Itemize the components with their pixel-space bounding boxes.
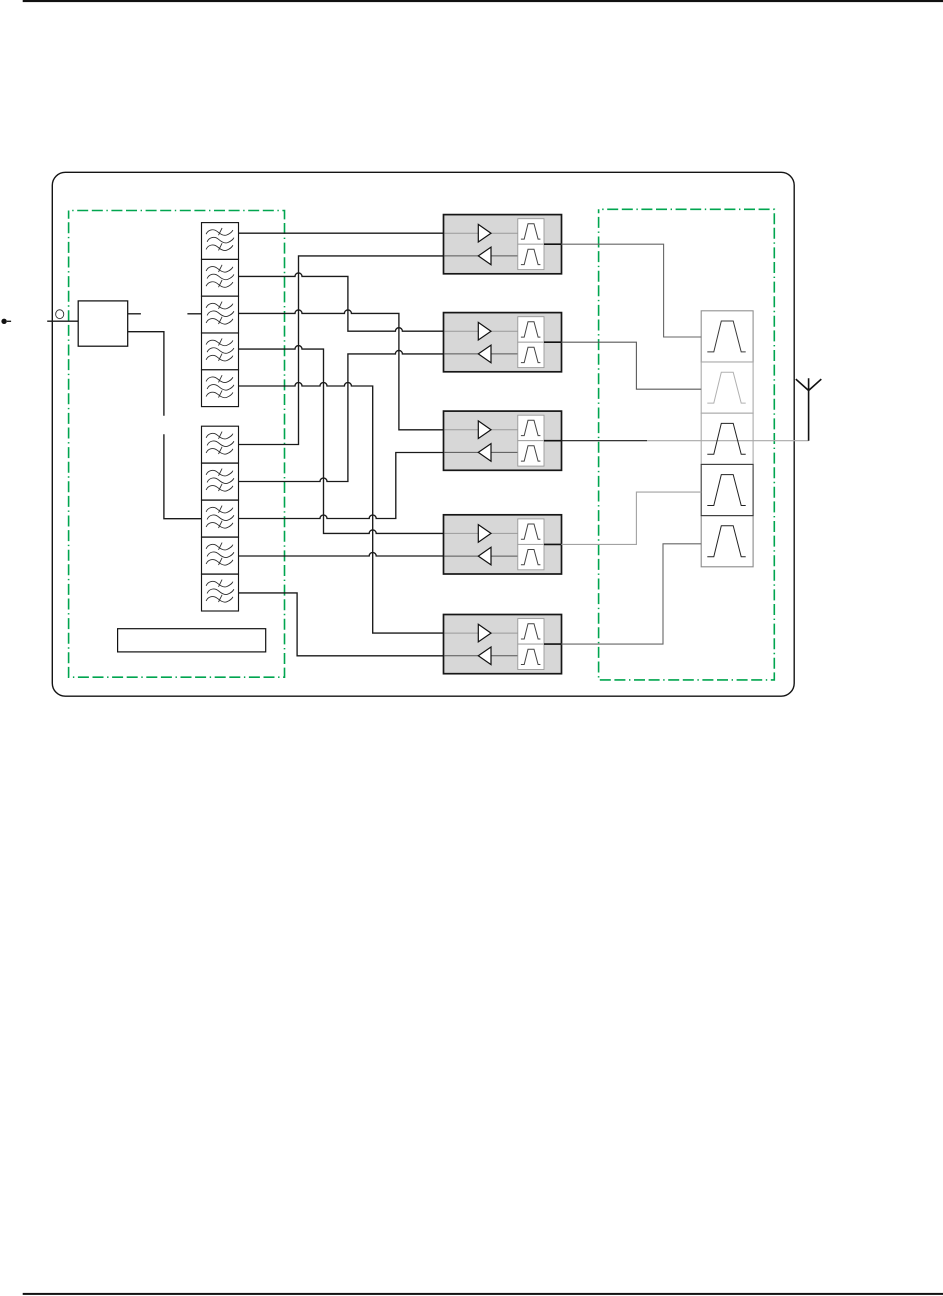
wire M2 output to B2: [561, 342, 701, 389]
combiner box B2: [701, 362, 753, 413]
filter F7: [202, 463, 239, 500]
wire M1 output to B1: [561, 244, 701, 337]
combiner box B4: [701, 464, 753, 515]
page bottom rule: [23, 1293, 943, 1295]
wire F4 to module M4 top: [239, 346, 444, 534]
wire M4 output to B4: [561, 492, 701, 544]
antenna: [796, 378, 822, 441]
module M1: [444, 215, 562, 274]
wire F5 to module M5 top: [239, 383, 444, 634]
wire M3 output through B3 to antenna (gray part): [647, 440, 809, 442]
base unit box: [78, 301, 128, 346]
filter F1: [202, 223, 239, 260]
wire F9 to module M4 bottom: [239, 553, 444, 557]
wire F7 to module M2 bottom: [239, 350, 444, 481]
filter F8: [202, 500, 239, 537]
filter F6: [202, 426, 239, 463]
band-pass curve B5: [707, 526, 745, 557]
wire (base unit output stub): [128, 313, 141, 315]
band-pass curve B1: [707, 321, 745, 352]
green dashed region (left: filter section): [69, 211, 285, 678]
wire F2 to module M2 top: [239, 273, 444, 331]
combiner box B5: [701, 516, 753, 567]
filter F9: [202, 537, 239, 574]
combiner box B3: [701, 413, 753, 464]
input node dot: [1, 319, 6, 324]
wire (stub into filter F3): [187, 313, 201, 315]
wire F10 to module M5 bottom: [239, 593, 444, 656]
wire M3 output (black part): [561, 440, 647, 442]
wire M5 output to B5: [561, 544, 701, 644]
module M3: [444, 411, 562, 470]
module M5: [444, 615, 562, 674]
combiner box B1: [701, 311, 753, 362]
wire (base unit to lower filter bank, with gaps): [128, 332, 202, 519]
band-pass curve B3: [707, 423, 745, 454]
page top rule: [23, 0, 943, 2]
band-pass curve B4: [707, 475, 745, 506]
module M4: [444, 515, 562, 574]
filter F3: [202, 296, 239, 333]
wire F1 to module M1 top: [239, 232, 444, 234]
wire F6 to module M1 bottom: [239, 256, 444, 445]
module M2: [444, 313, 562, 372]
filter F2: [202, 259, 239, 296]
wire (input feed into enclosure): [47, 320, 78, 322]
wire F3 to module M3 top: [239, 310, 444, 430]
label box (empty): [118, 629, 266, 652]
filter F4: [202, 333, 239, 370]
outer repeater enclosure: [52, 172, 794, 696]
filter F5: [202, 370, 239, 407]
wire (input stub): [7, 320, 11, 322]
filter F10: [202, 574, 239, 611]
wire F8 to module M3 bottom: [239, 453, 444, 519]
port circle: [56, 310, 64, 319]
green dashed region (right: combiner section): [599, 209, 775, 680]
band-pass curve B2: [707, 372, 745, 403]
